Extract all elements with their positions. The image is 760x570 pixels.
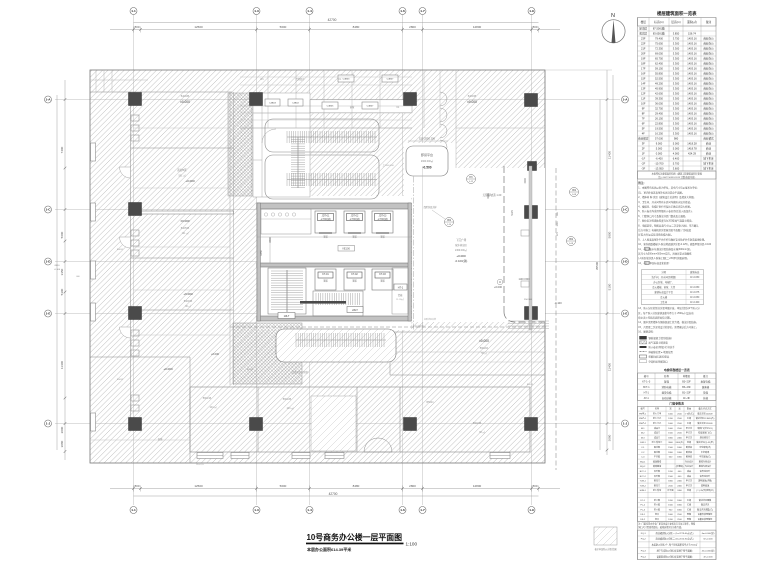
svg-text:-1F: -1F — [641, 157, 645, 161]
fire zone hatch sample — [594, 527, 617, 545]
svg-text:1100 1500: 1100 1500 — [518, 278, 530, 281]
svg-text:喷水灭火系统后面积加倍计算)。: 喷水灭火系统后面积加倍计算)。 — [638, 316, 672, 320]
svg-text:14、图中涂黑墙体为钢筋混凝土剪力墙，做法详见结施。: 14、图中涂黑墙体为钢筋混凝土剪力墙，做法详见结施。 — [638, 320, 698, 324]
svg-text:+0.000: +0.000 — [185, 179, 195, 183]
svg-text:22.850: 22.850 — [655, 122, 663, 126]
svg-text:KT-03: KT-03 — [379, 273, 386, 276]
ramp leader circle 1 — [467, 175, 476, 184]
svg-text:乘客电梯: 乘客电梯 — [701, 380, 711, 384]
svg-text:2800: 2800 — [409, 25, 416, 29]
svg-text:-0.100(消): -0.100(消) — [455, 259, 468, 263]
svg-text:16.250: 16.250 — [655, 132, 663, 136]
column Z6 — [525, 206, 538, 219]
svg-text:32.750: 32.750 — [655, 107, 663, 111]
svg-text:兼客梯: 兼客梯 — [702, 385, 710, 389]
top rooms band lines — [240, 127, 412, 129]
column Z13 small — [528, 162, 537, 171]
svg-text:39.350: 39.350 — [655, 97, 663, 101]
svg-text:JDT-01: JDT-01 — [322, 215, 330, 218]
svg-text:-2F: -2F — [641, 162, 645, 166]
svg-text:+0.000: +0.000 — [494, 285, 503, 289]
right-top room line — [456, 127, 545, 129]
svg-text:1403.16: 1403.16 — [687, 132, 697, 136]
svg-text:载货电梯: 载货电梯 — [662, 391, 672, 395]
crosshatch wall strip left of core — [228, 93, 252, 196]
svg-text:B4049B: B4049B — [184, 300, 193, 303]
corridor label boxes — [265, 99, 280, 106]
svg-text:1500: 1500 — [524, 178, 527, 184]
svg-text:(人防区域详见人防施工图(二)-35(甲)详图选用)。: (人防区域详见人防施工图(二)-35(甲)详图选用)。 — [638, 256, 689, 260]
svg-text:10F: 10F — [641, 102, 646, 106]
svg-text:2300.000㎡: 2300.000㎡ — [421, 159, 434, 163]
svg-text:FQ-1: FQ-1 — [641, 533, 647, 535]
svg-text:B5023B: B5023B — [473, 422, 482, 425]
elevator table — [638, 373, 717, 401]
svg-text:9.000: 9.000 — [656, 142, 663, 146]
svg-text:0.000: 0.000 — [656, 152, 663, 156]
svg-text:13、防火分区的划分详见本图示意，本层共划分2个防火分: 13、防火分区的划分详见本图示意，本层共划分2个防火分 — [638, 306, 700, 310]
svg-text:1403.16: 1403.16 — [687, 112, 697, 116]
curved curtain wall arcs — [440, 92, 447, 106]
property dashed line — [555, 168, 557, 470]
svg-text:楼层建筑面积一览表: 楼层建筑面积一览表 — [657, 10, 697, 17]
svg-text:商业办公: 商业办公 — [703, 117, 714, 121]
svg-text:3080: 3080 — [60, 440, 64, 447]
right dim ticks — [606, 98, 609, 451]
svg-text:3.850: 3.850 — [673, 32, 680, 36]
loading platform callout — [406, 146, 448, 176]
svg-text:21F: 21F — [641, 47, 646, 51]
svg-text:5100: 5100 — [608, 283, 612, 290]
loading dock white area — [404, 143, 456, 196]
top band wall — [90, 91, 232, 93]
svg-text:消防电梯: 消防电梯 — [662, 385, 672, 389]
svg-text:8480: 8480 — [353, 484, 360, 488]
svg-text:7、图中未注明墙体厚度均为200厚加气混凝土砌块。: 7、图中未注明墙体厚度均为200厚加气混凝土砌块。 — [638, 219, 694, 223]
svg-text:商业: 商业 — [706, 142, 712, 146]
legend row 3 — [640, 346, 647, 348]
svg-text:36.050: 36.050 — [655, 102, 663, 106]
svg-text:5.000: 5.000 — [673, 147, 680, 151]
svg-text:104 ㎡: 104 ㎡ — [209, 405, 217, 409]
svg-text:42.650: 42.650 — [655, 92, 663, 96]
svg-text:1200: 1200 — [557, 221, 559, 227]
svg-text:商业裙房: 商业裙房 — [703, 137, 714, 141]
svg-text:1350: 1350 — [260, 250, 263, 256]
svg-text:XFT-1: XFT-1 — [643, 386, 650, 389]
svg-text:HT-1: HT-1 — [398, 287, 404, 290]
svg-text:8F: 8F — [642, 112, 645, 116]
floor table column rules — [649, 18, 701, 172]
grid bubble bottom 1-4 — [306, 507, 313, 514]
svg-text:1-9: 1-9 — [529, 508, 534, 512]
svg-text:商业办公: 商业办公 — [703, 92, 714, 96]
svg-text:3.300: 3.300 — [673, 117, 680, 121]
svg-text:HT-1: HT-1 — [644, 392, 650, 395]
svg-text:KT-01: KT-01 — [322, 273, 329, 276]
svg-text:钢筋混凝土墙(详结施): 钢筋混凝土墙(详结施) — [649, 336, 672, 340]
notes block — [638, 181, 711, 265]
svg-text:4、楼梯间、电梯厅处栏杆及扶手做法详见大样图。: 4、楼梯间、电梯厅处栏杆及扶手做法详见大样图。 — [638, 205, 692, 209]
svg-text:87.500(坡): 87.500(坡) — [653, 27, 665, 31]
svg-text:B4051: B4051 — [117, 249, 124, 251]
svg-text:TLM-1: TLM-1 — [640, 481, 647, 483]
floor area table rows — [638, 27, 717, 171]
top band extra lines — [240, 76, 412, 78]
svg-text:75.650: 75.650 — [655, 42, 663, 46]
svg-text:B4050B: B4050B — [181, 227, 190, 230]
svg-text:电梯停靠楼层一览表: 电梯停靠楼层一览表 — [664, 367, 690, 372]
svg-text:10号商务办公楼一层平面图: 10号商务办公楼一层平面图 — [307, 532, 403, 542]
svg-text:3350: 3350 — [60, 268, 64, 275]
svg-text:商业办公: 商业办公 — [703, 107, 714, 111]
svg-text:1403.16: 1403.16 — [687, 127, 697, 131]
svg-text:层高(m): 层高(m) — [671, 20, 681, 24]
svg-text:18F: 18F — [641, 62, 646, 66]
svg-text:4180: 4180 — [486, 193, 490, 199]
core bottom wall — [257, 316, 411, 321]
svg-text:C4B07: C4B07 — [387, 79, 394, 81]
svg-text:1-C: 1-C — [46, 208, 52, 212]
svg-text:C4B05: C4B05 — [327, 106, 334, 108]
tower overhang dashed line bottom — [504, 312, 545, 322]
svg-text:15F: 15F — [641, 77, 646, 81]
svg-text:3080: 3080 — [608, 434, 612, 441]
west strip stair ticks — [291, 137, 305, 188]
left edge louvers — [91, 143, 96, 431]
svg-text:1-J: 1-J — [46, 422, 51, 426]
svg-text:+6.000: +6.000 — [183, 292, 193, 296]
svg-text:MQ-1: MQ-1 — [640, 461, 646, 463]
canopy dashed line bottom — [230, 326, 548, 328]
svg-text:1-E: 1-E — [46, 312, 51, 316]
grid bubble top 1-9 — [528, 8, 535, 15]
svg-text:6.400: 6.400 — [673, 157, 680, 161]
svg-text:1403.16: 1403.16 — [687, 52, 697, 56]
svg-text:1F-0.050: 1F-0.050 — [690, 297, 700, 299]
bottom segment dim line — [110, 488, 560, 490]
svg-text:800: 800 — [532, 484, 537, 488]
svg-text:1403.16: 1403.16 — [687, 62, 697, 66]
svg-text:1-D: 1-D — [623, 260, 629, 264]
svg-text:备注: 备注 — [703, 374, 708, 378]
column Z11 — [404, 418, 417, 431]
crosshatch strip bottom center — [233, 323, 302, 384]
leader circle J2 — [567, 237, 576, 246]
svg-text:商业办公: 商业办公 — [703, 82, 714, 86]
svg-text:B5022B: B5022B — [283, 398, 292, 401]
svg-text:备注: 备注 — [706, 20, 712, 24]
escalator room upper — [265, 119, 379, 152]
svg-text:1-J: 1-J — [623, 422, 628, 426]
grid bubble bottom 1-1 — [130, 507, 137, 514]
core lobby white area — [257, 196, 411, 330]
svg-text:C4B02: C4B02 — [292, 103, 299, 105]
svg-text:BYC-2: BYC-2 — [640, 476, 647, 478]
west service strip outline — [253, 93, 310, 197]
svg-text:-0.100: -0.100 — [54, 269, 61, 271]
svg-text:N: N — [611, 13, 615, 19]
svg-text:17F: 17F — [641, 67, 646, 71]
elevator shaft F2 — [344, 269, 365, 290]
svg-text:5.000: 5.000 — [656, 147, 663, 151]
svg-text:本层办公面积614.39平米: 本层办公面积614.39平米 — [306, 546, 351, 552]
svg-text:商业裙房: 商业裙房 — [638, 137, 649, 141]
svg-text:1-D: 1-D — [46, 260, 52, 264]
svg-text:79.400: 79.400 — [655, 37, 663, 41]
svg-text:区，每个防火分区建筑面积均不大于 2500㎡ (设自动: 区，每个防火分区建筑面积均不大于 2500㎡ (设自动 — [638, 311, 694, 315]
svg-text:停靠层: 停靠层 — [683, 374, 691, 378]
legend row 1 — [640, 336, 647, 339]
svg-text:3.300: 3.300 — [673, 107, 680, 111]
svg-text:11400: 11400 — [608, 363, 612, 371]
svg-text:3.300: 3.300 — [673, 82, 680, 86]
top-left corner small rooms — [95, 70, 97, 92]
legend row 2 — [640, 341, 647, 344]
svg-text:商业办公: 商业办公 — [703, 132, 714, 136]
svg-text:附注:: 附注: — [638, 181, 644, 185]
grid bubble left 1-J — [45, 420, 52, 427]
core mid wall — [257, 263, 411, 267]
svg-text:1-7: 1-7 — [420, 9, 425, 13]
svg-text:KT-02: KT-02 — [351, 273, 358, 276]
svg-text:1:100: 1:100 — [406, 541, 418, 546]
svg-text:商业办公: 商业办公 — [703, 42, 714, 46]
svg-text:商业办公: 商业办公 — [703, 57, 714, 61]
svg-text:+0.000: +0.000 — [456, 254, 466, 258]
svg-text:C4B03: C4B03 — [343, 79, 350, 81]
svg-text:1403.16: 1403.16 — [687, 47, 697, 51]
left wall stubs column line — [131, 115, 139, 411]
svg-text:5.000: 5.000 — [673, 142, 680, 146]
svg-text:B5024: B5024 — [427, 401, 435, 404]
corridor wall line — [257, 236, 411, 238]
legend row 5 — [640, 355, 647, 358]
svg-text:12、□表示本层标高变化处理:: 12、□表示本层标高变化处理: — [638, 261, 669, 265]
svg-text:1-A: 1-A — [623, 98, 629, 102]
level schedule table — [642, 270, 704, 305]
window symbols bottom edge — [197, 453, 510, 459]
svg-text:3.300: 3.300 — [673, 47, 680, 51]
tower edge wall strip — [529, 166, 532, 330]
svg-text:591 ㎡: 591 ㎡ — [178, 174, 186, 178]
grid bubble right 1-E — [622, 310, 629, 317]
svg-text:2、墙体材 料:详见《建筑设计总说明》及墙身大样图。: 2、墙体材 料:详见《建筑设计总说明》及墙身大样图。 — [638, 195, 696, 199]
grid bubble left 1-A — [45, 96, 52, 103]
svg-text:45.950: 45.950 — [655, 87, 663, 91]
elevator shaft F1 — [315, 269, 336, 290]
svg-text:59.150: 59.150 — [655, 67, 663, 71]
svg-text:3.300: 3.300 — [673, 42, 680, 46]
bottom dim ticks — [132, 486, 540, 492]
svg-text:1-4: 1-4 — [307, 9, 312, 13]
top band partition — [379, 70, 381, 128]
column Z4 — [525, 94, 538, 107]
svg-text:1403.16: 1403.16 — [687, 37, 697, 41]
door window table — [638, 406, 717, 521]
svg-text:2#LT: 2#LT — [352, 308, 358, 312]
svg-text:后方可施工; 电梯机房详见屋顶层平面图; 门洞高度: 后方可施工; 电梯机房详见屋顶层平面图; 门洞高度 — [638, 228, 691, 232]
svg-text:57.000: 57.000 — [655, 137, 663, 141]
svg-text:B4046B: B4046B — [468, 95, 477, 98]
svg-text:详见大样(以实际采购电梯为准)。: 详见大样(以实际采购电梯为准)。 — [638, 233, 673, 237]
svg-text:商业: 商业 — [706, 152, 712, 156]
svg-text:FQ-3: FQ-3 — [641, 551, 647, 553]
svg-text:±0.000: ±0.000 — [180, 219, 189, 223]
left block partition walls — [131, 147, 234, 149]
svg-text:商业办公: 商业办公 — [703, 47, 714, 51]
north corridor white cutout — [310, 100, 412, 113]
svg-text:1-9: 1-9 — [529, 9, 534, 13]
svg-text:49.250: 49.250 — [655, 82, 663, 86]
svg-text:1-1: 1-1 — [131, 508, 136, 512]
grid bubble top 1-3 — [253, 8, 260, 15]
svg-text:3.300: 3.300 — [673, 77, 680, 81]
svg-text:空调机位预留洞口: 空调机位预留洞口 — [649, 359, 669, 363]
svg-text:B5028A: B5028A — [480, 347, 489, 350]
legend row 6 — [640, 360, 647, 363]
svg-text:商业办公: 商业办公 — [703, 97, 714, 101]
svg-text:1F~3F: 1F~3F — [683, 397, 691, 400]
svg-text:商业办公: 商业办公 — [703, 77, 714, 81]
svg-text:3.300: 3.300 — [673, 102, 680, 106]
svg-text:5600: 5600 — [280, 25, 287, 29]
svg-text:12500: 12500 — [194, 484, 203, 488]
svg-text:11400: 11400 — [60, 361, 64, 369]
svg-text:门窗参数表: 门窗参数表 — [670, 401, 685, 406]
svg-text:商业办公: 商业办公 — [703, 37, 714, 41]
svg-text:-13.950: -13.950 — [655, 167, 664, 171]
ramp leader circle 1b — [445, 218, 454, 227]
svg-text:JDT-02: JDT-02 — [351, 215, 359, 218]
svg-text:14F: 14F — [641, 82, 646, 86]
left dim chain line — [64, 80, 66, 460]
svg-text:1F: 1F — [642, 152, 645, 156]
svg-text:1-6: 1-6 — [400, 508, 405, 512]
west strip white cutout — [253, 93, 310, 197]
left block inner detail lines — [133, 127, 230, 129]
svg-text:防火卷帘(特级) 栏杆扶手: 防火卷帘(特级) 栏杆扶手 — [649, 345, 676, 349]
svg-text:1403.16: 1403.16 — [687, 42, 697, 46]
column Z8 — [525, 307, 538, 320]
svg-text:4.000: 4.000 — [673, 152, 680, 156]
grid line axis A horizontal — [55, 99, 620, 101]
svg-text:面积(㎡): 面积(㎡) — [687, 20, 697, 24]
escalator treads upper — [287, 131, 377, 143]
svg-text:8480: 8480 — [353, 25, 360, 29]
stair cut bar — [300, 301, 346, 304]
svg-text:8、电梯选型，预留井道尺寸(以二次深化为准)、甲方确认: 8、电梯选型，预留井道尺寸(以二次深化为准)、甲方确认 — [638, 223, 699, 227]
svg-text:5125: 5125 — [511, 210, 514, 216]
svg-text:加气混凝土砌块墙: 加气混凝土砌块墙 — [649, 341, 669, 345]
grid bubble top 1-6 — [399, 8, 406, 15]
shops room outline bottom — [190, 387, 530, 452]
top overall dim line — [134, 22, 539, 24]
north corridor outline — [310, 100, 412, 113]
svg-text:5、防火卷帘均采用特级防火卷帘(包括背火面温升)。: 5、防火卷帘均采用特级防火卷帘(包括背火面温升)。 — [638, 209, 694, 213]
notes block 2 — [638, 306, 700, 334]
svg-text:地下车库: 地下车库 — [703, 167, 714, 171]
svg-text:12500: 12500 — [194, 25, 203, 29]
top band partition — [295, 70, 297, 128]
panel left border — [637, 18, 639, 560]
svg-text:2000: 2000 — [60, 426, 64, 433]
core top wall — [257, 203, 411, 209]
svg-text:1403.16: 1403.16 — [687, 82, 697, 86]
svg-text:B1~23F: B1~23F — [682, 392, 691, 395]
svg-text:名称: 名称 — [664, 374, 669, 378]
svg-text:自动扶梯: 自动扶梯 — [662, 396, 672, 400]
svg-text:+0.000: +0.000 — [163, 367, 173, 371]
toilet room left — [261, 209, 311, 234]
svg-text:9、上人屋面及室外平台栏杆均做好安全防护并作防雷接地处理。: 9、上人屋面及室外平台栏杆均做好安全防护并作防雷接地处理。 — [638, 237, 706, 241]
svg-text:3.750: 3.750 — [673, 37, 680, 41]
svg-text:商业办公: 商业办公 — [703, 87, 714, 91]
svg-text:3.300: 3.300 — [673, 52, 680, 56]
left dim ticks — [64, 98, 67, 453]
svg-text:B5020: B5020 — [247, 369, 254, 371]
grid bubble bottom 1-3 — [253, 507, 260, 514]
svg-text:5300: 5300 — [60, 288, 64, 295]
grid bubble left 1-E — [45, 310, 52, 317]
svg-text:屋顶层: 屋顶层 — [639, 27, 647, 31]
svg-text:800: 800 — [134, 484, 139, 488]
svg-text:-0.100: -0.100 — [554, 301, 562, 305]
svg-text:1F-0.050: 1F-0.050 — [690, 287, 700, 289]
svg-text:商业办公: 商业办公 — [703, 52, 714, 56]
svg-text:22F: 22F — [641, 42, 646, 46]
elevator shaft E2 — [344, 211, 365, 233]
svg-text:室外休息区: 室外休息区 — [455, 243, 468, 247]
svg-text:4F: 4F — [642, 132, 645, 136]
svg-text:KT-1~3: KT-1~3 — [642, 381, 651, 384]
svg-text:C4B03: C4B03 — [269, 103, 276, 105]
svg-text:C4B07: C4B07 — [367, 106, 374, 108]
svg-text:52.550: 52.550 — [655, 77, 663, 81]
svg-text:编号: 编号 — [644, 374, 649, 378]
svg-text:-3F: -3F — [641, 167, 645, 171]
svg-text:(1)、室内外高差及室外标高详见总平面图。: (1)、室内外高差及室外标高详见总平面图。 — [638, 190, 684, 194]
svg-text:商业办公: 商业办公 — [703, 72, 714, 76]
svg-text:83.650(坡): 83.650(坡) — [653, 32, 665, 36]
svg-text:980: 980 — [674, 137, 679, 141]
elevator shaft F3 — [372, 269, 393, 290]
entrance door arcs bottom — [364, 438, 392, 452]
setback line top right — [545, 69, 612, 71]
svg-text:1-E: 1-E — [623, 312, 628, 316]
svg-text:机房层: 机房层 — [639, 32, 647, 36]
svg-text:其尺寸为500mm×500mm见方，具体详见水施图纸: 其尺寸为500mm×500mm见方，具体详见水施图纸 — [638, 252, 692, 256]
svg-text:MQ-2: MQ-2 — [640, 466, 646, 468]
svg-text:3.300: 3.300 — [673, 92, 680, 96]
svg-text:10、室外疏散楼梯(人防出地面踏步详见-0.125)，疏散甲: 10、室外疏散楼梯(人防出地面踏步详见-0.125)，疏散甲级详见-0.100 — [638, 242, 711, 246]
svg-text:±0.000: ±0.000 — [467, 100, 477, 104]
panel right border — [715, 18, 717, 560]
left wall door arcs — [120, 167, 131, 178]
svg-text:104 ㎡: 104 ㎡ — [286, 406, 294, 410]
column Z1 — [129, 93, 142, 106]
left block lower partition — [90, 356, 190, 358]
svg-text:3.300: 3.300 — [673, 57, 680, 61]
svg-text:5600: 5600 — [280, 484, 287, 488]
svg-text:55.850: 55.850 — [655, 72, 663, 76]
svg-text:DK-1: DK-1 — [640, 514, 646, 516]
grid bubble left 1-C — [45, 206, 52, 213]
svg-text:楼层: 楼层 — [641, 20, 647, 24]
svg-text:无障碍坡道 1:20: 无障碍坡道 1:20 — [483, 193, 502, 197]
svg-text:424.29: 424.29 — [688, 152, 696, 156]
svg-text:伸缩缝位置 ● 地漏位置: 伸缩缝位置 ● 地漏位置 — [649, 350, 674, 354]
